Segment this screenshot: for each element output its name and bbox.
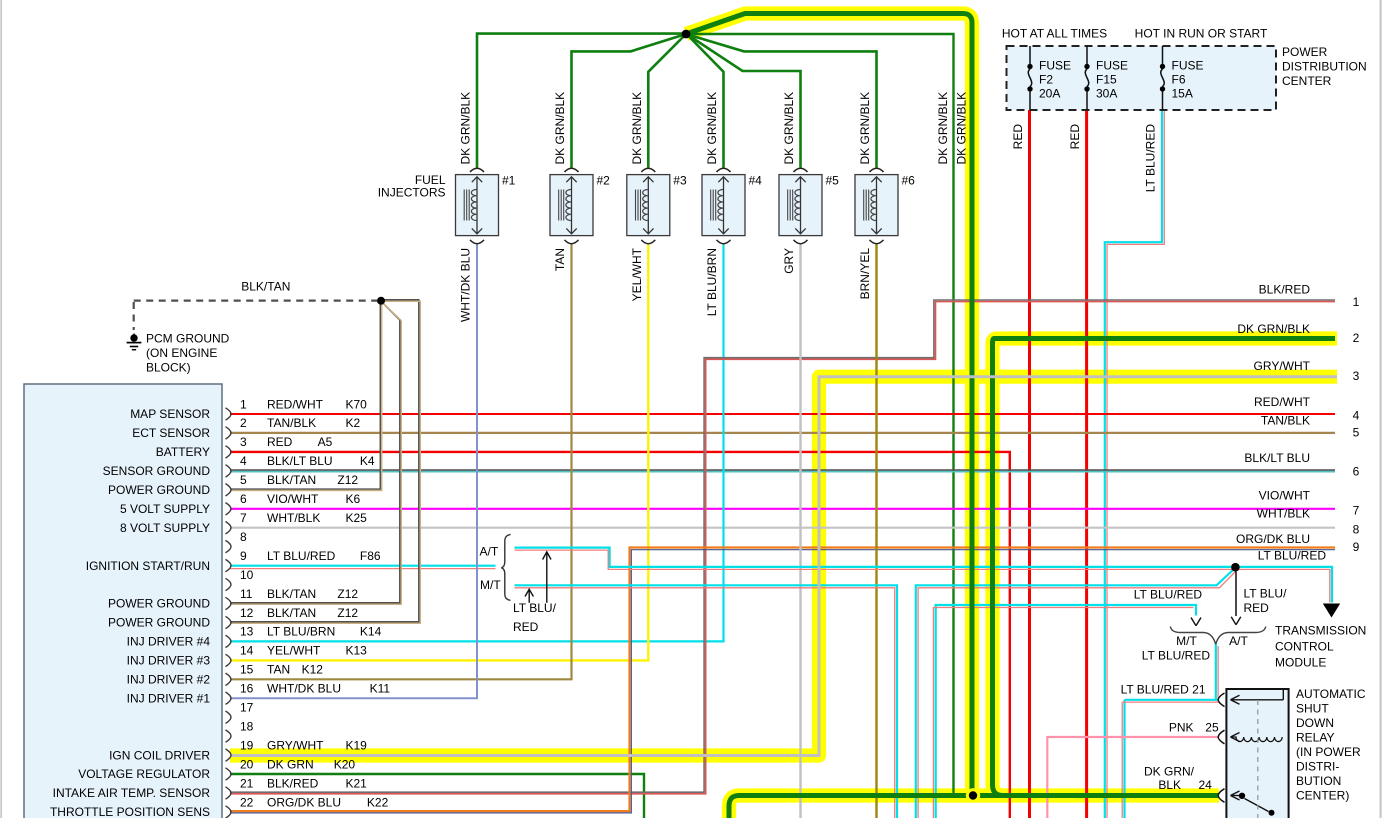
svg-text:K70: K70	[346, 397, 368, 411]
svg-text:LT BLU/: LT BLU/	[513, 601, 557, 615]
svg-text:9: 9	[1353, 540, 1360, 554]
svg-text:10: 10	[240, 568, 254, 582]
svg-text:INJ DRIVER #2: INJ DRIVER #2	[127, 673, 211, 687]
svg-text:VIO/WHT: VIO/WHT	[267, 492, 319, 506]
svg-text:BLK/TAN: BLK/TAN	[241, 279, 290, 293]
svg-text:9: 9	[240, 549, 247, 563]
svg-text:A/T: A/T	[1229, 634, 1248, 648]
svg-text:RED: RED	[1011, 124, 1025, 150]
svg-text:DK GRN/: DK GRN/	[1144, 764, 1195, 778]
svg-text:YEL/WHT: YEL/WHT	[267, 644, 321, 658]
svg-text:IGN COIL DRIVER: IGN COIL DRIVER	[109, 748, 210, 762]
svg-text:TAN: TAN	[267, 663, 290, 677]
svg-text:22: 22	[240, 795, 254, 809]
svg-text:RED: RED	[513, 620, 539, 634]
svg-text:RED: RED	[267, 435, 293, 449]
svg-text:DK GRN/BLK: DK GRN/BLK	[553, 92, 567, 165]
svg-text:K13: K13	[346, 644, 368, 658]
svg-text:VIO/WHT: VIO/WHT	[1259, 488, 1311, 502]
svg-text:1: 1	[240, 397, 247, 411]
svg-text:BATTERY: BATTERY	[156, 445, 210, 459]
svg-text:DK GRN/BLK: DK GRN/BLK	[955, 92, 969, 165]
svg-text:2: 2	[240, 416, 247, 430]
svg-text:16: 16	[240, 682, 254, 696]
svg-text:A/T: A/T	[480, 544, 499, 558]
svg-text:TRANSMISSION: TRANSMISSION	[1275, 624, 1366, 638]
svg-text:DK GRN: DK GRN	[267, 757, 314, 771]
svg-text:LT BLU/RED: LT BLU/RED	[1258, 548, 1327, 562]
svg-text:INJ DRIVER #3: INJ DRIVER #3	[127, 654, 211, 668]
svg-text:LT BLU/RED: LT BLU/RED	[1144, 124, 1158, 193]
svg-text:DK GRN/BLK: DK GRN/BLK	[782, 92, 796, 165]
svg-text:MAP SENSOR: MAP SENSOR	[130, 407, 210, 421]
svg-text:LT BLU/RED: LT BLU/RED	[1134, 587, 1203, 601]
svg-text:POWER GROUND: POWER GROUND	[108, 616, 210, 630]
svg-text:K4: K4	[360, 454, 375, 468]
svg-text:LT BLU/RED: LT BLU/RED	[1142, 648, 1211, 662]
svg-text:CENTER: CENTER	[1282, 74, 1332, 88]
svg-text:LT BLU/BRN: LT BLU/BRN	[705, 248, 719, 316]
svg-text:18: 18	[240, 719, 254, 733]
svg-text:DK GRN/BLK: DK GRN/BLK	[858, 92, 872, 165]
svg-text:DK GRN/BLK: DK GRN/BLK	[459, 92, 473, 165]
svg-text:IGNITION START/RUN: IGNITION START/RUN	[86, 559, 210, 573]
svg-text:M/T: M/T	[1176, 634, 1197, 648]
svg-text:1: 1	[1353, 295, 1360, 309]
svg-text:INJ DRIVER #4: INJ DRIVER #4	[127, 635, 211, 649]
svg-text:K25: K25	[346, 511, 368, 525]
svg-text:FUSE: FUSE	[1039, 58, 1071, 72]
svg-text:4: 4	[1353, 409, 1360, 423]
svg-text:PCM GROUND: PCM GROUND	[146, 331, 230, 345]
svg-text:LT BLU/RED: LT BLU/RED	[267, 549, 336, 563]
svg-text:DK GRN/BLK: DK GRN/BLK	[936, 92, 950, 165]
svg-text:(ON ENGINE: (ON ENGINE	[146, 346, 217, 360]
svg-text:TAN: TAN	[553, 248, 567, 271]
svg-text:#6: #6	[902, 174, 916, 188]
svg-text:7: 7	[1353, 503, 1360, 517]
svg-text:HOT AT ALL TIMES: HOT AT ALL TIMES	[1002, 26, 1107, 40]
svg-text:SENSOR GROUND: SENSOR GROUND	[103, 464, 211, 478]
svg-text:BLK/LT BLU: BLK/LT BLU	[267, 454, 333, 468]
svg-text:BLOCK): BLOCK)	[146, 360, 191, 374]
svg-text:BLK/TAN: BLK/TAN	[267, 606, 316, 620]
svg-text:POWER GROUND: POWER GROUND	[108, 483, 210, 497]
svg-text:ORG/DK BLU: ORG/DK BLU	[267, 795, 341, 809]
svg-text:GRY/WHT: GRY/WHT	[1254, 359, 1311, 373]
svg-text:ORG/DK BLU: ORG/DK BLU	[1236, 532, 1310, 546]
svg-text:VOLTAGE REGULATOR: VOLTAGE REGULATOR	[78, 767, 210, 781]
svg-text:RED/WHT: RED/WHT	[1254, 395, 1311, 409]
svg-text:AUTOMATIC: AUTOMATIC	[1296, 687, 1366, 701]
svg-text:6: 6	[240, 492, 247, 506]
svg-text:#2: #2	[597, 174, 611, 188]
svg-text:12: 12	[240, 606, 254, 620]
svg-text:HOT IN RUN OR START: HOT IN RUN OR START	[1135, 26, 1268, 40]
svg-text:LT BLU/RED 21: LT BLU/RED 21	[1121, 682, 1206, 696]
svg-text:F2: F2	[1039, 72, 1053, 86]
svg-text:24: 24	[1199, 778, 1213, 792]
svg-text:INJECTORS: INJECTORS	[378, 185, 446, 199]
svg-text:WHT/BLK: WHT/BLK	[267, 511, 320, 525]
svg-text:BUTION: BUTION	[1296, 774, 1341, 788]
svg-text:M/T: M/T	[480, 578, 501, 592]
svg-text:Z12: Z12	[337, 473, 358, 487]
svg-text:20: 20	[240, 757, 254, 771]
svg-text:MODULE: MODULE	[1275, 656, 1326, 670]
svg-text:BLK/RED: BLK/RED	[1259, 283, 1311, 297]
svg-text:TAN/BLK: TAN/BLK	[1261, 413, 1310, 427]
svg-text:K11: K11	[370, 682, 391, 696]
svg-text:11: 11	[240, 587, 253, 601]
svg-text:8: 8	[1353, 522, 1360, 536]
svg-text:3: 3	[1353, 369, 1360, 383]
svg-text:17: 17	[240, 701, 254, 715]
svg-text:K6: K6	[346, 492, 361, 506]
svg-text:BRN/YEL: BRN/YEL	[858, 248, 872, 300]
svg-text:14: 14	[240, 644, 254, 658]
svg-text:PNK: PNK	[1169, 720, 1194, 734]
svg-text:#4: #4	[749, 174, 763, 188]
svg-text:BLK/RED: BLK/RED	[267, 776, 319, 790]
svg-text:(IN POWER: (IN POWER	[1296, 745, 1361, 759]
svg-text:5: 5	[1353, 426, 1360, 440]
svg-text:5 VOLT SUPPLY: 5 VOLT SUPPLY	[120, 502, 210, 516]
svg-text:Z12: Z12	[337, 606, 358, 620]
svg-text:6: 6	[1353, 465, 1360, 479]
svg-text:25: 25	[1205, 720, 1219, 734]
svg-text:BLK: BLK	[1158, 778, 1181, 792]
svg-text:DOWN: DOWN	[1296, 716, 1334, 730]
svg-text:19: 19	[240, 738, 254, 752]
svg-text:LT BLU/: LT BLU/	[1244, 586, 1288, 600]
svg-text:RELAY: RELAY	[1296, 730, 1334, 744]
svg-text:POWER GROUND: POWER GROUND	[108, 597, 210, 611]
svg-text:BLK/TAN: BLK/TAN	[267, 473, 316, 487]
svg-text:3: 3	[240, 435, 247, 449]
svg-text:15: 15	[240, 663, 254, 677]
svg-text:LT BLU/BRN: LT BLU/BRN	[267, 625, 335, 639]
svg-text:WHT/BLK: WHT/BLK	[1257, 507, 1310, 521]
svg-text:21: 21	[240, 776, 254, 790]
svg-text:THROTTLE POSITION SENS: THROTTLE POSITION SENS	[50, 805, 210, 818]
svg-text:WHT/DK BLU: WHT/DK BLU	[267, 682, 341, 696]
svg-text:K14: K14	[360, 625, 382, 639]
svg-text:RED: RED	[1244, 601, 1270, 615]
svg-text:BLK/LT BLU: BLK/LT BLU	[1244, 451, 1310, 465]
svg-text:#5: #5	[826, 174, 840, 188]
svg-text:#3: #3	[673, 174, 687, 188]
svg-text:INTAKE AIR TEMP. SENSOR: INTAKE AIR TEMP. SENSOR	[53, 786, 211, 800]
svg-text:5: 5	[240, 473, 247, 487]
svg-text:ECT SENSOR: ECT SENSOR	[132, 426, 210, 440]
svg-text:7: 7	[240, 511, 247, 525]
svg-text:K20: K20	[334, 757, 356, 771]
svg-text:INJ DRIVER #1: INJ DRIVER #1	[127, 691, 211, 705]
svg-text:F86: F86	[360, 549, 381, 563]
svg-text:F15: F15	[1096, 72, 1117, 86]
svg-text:FUSE: FUSE	[1096, 58, 1128, 72]
svg-text:K19: K19	[346, 738, 368, 752]
svg-text:YEL/WHT: YEL/WHT	[630, 247, 644, 301]
svg-text:RED: RED	[1068, 124, 1082, 150]
svg-text:GRY: GRY	[782, 248, 796, 274]
svg-text:F6: F6	[1172, 72, 1186, 86]
svg-text:DK GRN/BLK: DK GRN/BLK	[630, 92, 644, 165]
svg-text:8: 8	[240, 530, 247, 544]
svg-text:BLK/TAN: BLK/TAN	[267, 587, 316, 601]
svg-text:2: 2	[1353, 331, 1360, 345]
svg-text:K2: K2	[346, 416, 361, 430]
svg-text:4: 4	[240, 454, 247, 468]
svg-text:WHT/DK BLU: WHT/DK BLU	[459, 248, 473, 322]
svg-text:8 VOLT SUPPLY: 8 VOLT SUPPLY	[120, 521, 210, 535]
svg-text:K21: K21	[346, 776, 368, 790]
svg-text:13: 13	[240, 625, 254, 639]
svg-text:#1: #1	[502, 174, 516, 188]
svg-text:TAN/BLK: TAN/BLK	[267, 416, 316, 430]
svg-text:CENTER): CENTER)	[1296, 788, 1349, 802]
svg-text:A5: A5	[318, 435, 333, 449]
svg-text:30A: 30A	[1096, 86, 1117, 100]
svg-text:Z12: Z12	[337, 587, 358, 601]
svg-text:POWER: POWER	[1282, 45, 1328, 59]
svg-text:DISTRIBUTION: DISTRIBUTION	[1282, 59, 1367, 73]
svg-text:K22: K22	[367, 795, 389, 809]
svg-text:K12: K12	[302, 663, 324, 677]
svg-text:DISTRI-: DISTRI-	[1296, 759, 1339, 773]
svg-text:15A: 15A	[1172, 86, 1193, 100]
svg-text:20A: 20A	[1039, 86, 1060, 100]
svg-text:FUSE: FUSE	[1172, 58, 1204, 72]
svg-text:SHUT: SHUT	[1296, 701, 1329, 715]
svg-text:DK GRN/BLK: DK GRN/BLK	[1237, 322, 1310, 336]
svg-text:DK GRN/BLK: DK GRN/BLK	[705, 92, 719, 165]
svg-text:CONTROL: CONTROL	[1275, 640, 1334, 654]
svg-text:GRY/WHT: GRY/WHT	[267, 738, 324, 752]
svg-text:RED/WHT: RED/WHT	[267, 397, 324, 411]
